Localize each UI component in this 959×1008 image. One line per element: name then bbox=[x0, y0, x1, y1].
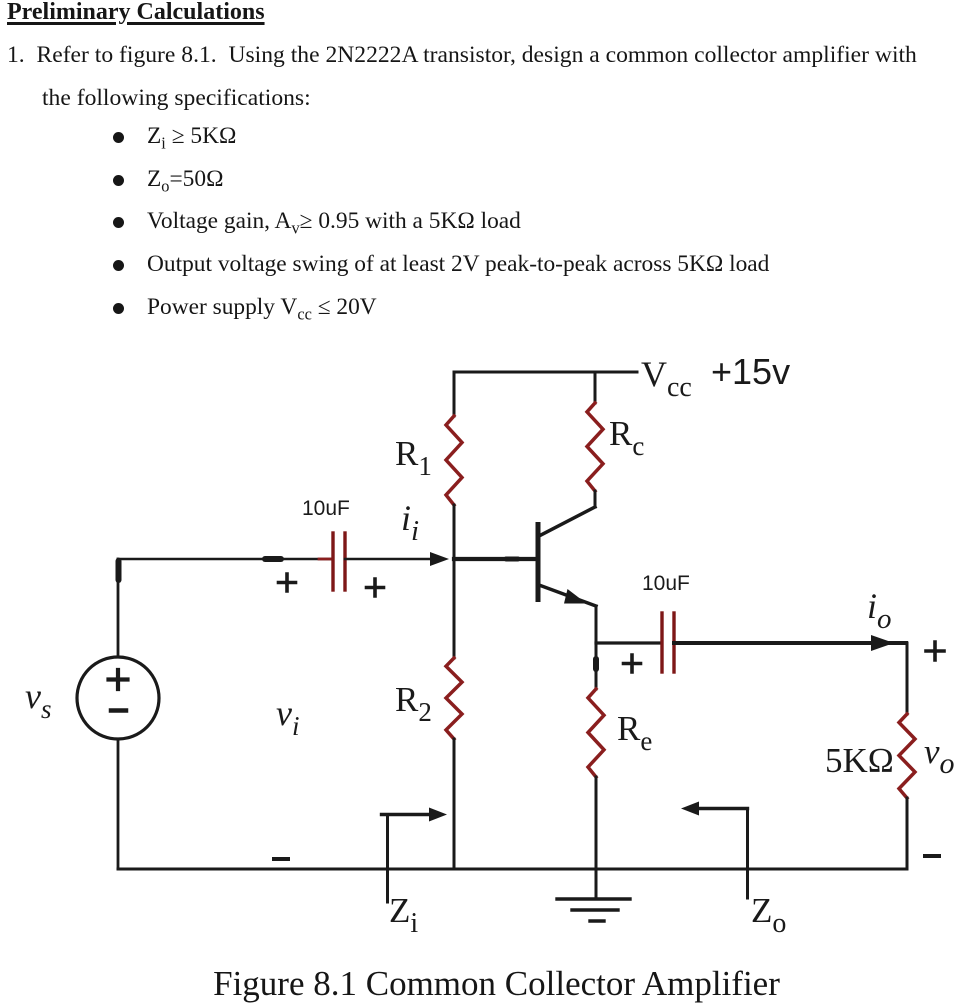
paragraph line 1 bbox=[7, 42, 917, 69]
resistor R2 bbox=[446, 658, 462, 739]
wire: Rc bottom to collector bend bbox=[594, 491, 597, 507]
arrowhead io bbox=[871, 635, 894, 651]
source vs circle bbox=[77, 657, 159, 739]
svg-text:Vcc: Vcc bbox=[641, 354, 692, 403]
capacitor C1 right plate bbox=[343, 533, 346, 590]
blob at input corner bbox=[116, 561, 122, 580]
transistor Q1 collector lead bbox=[539, 507, 595, 536]
wire: emitter vertical to output node bbox=[595, 606, 598, 643]
bullet 3: voltage gain bbox=[113, 217, 124, 228]
circuit schematic figure 8.1 bbox=[0, 340, 959, 1008]
svg-text:Rc: Rc bbox=[609, 414, 644, 461]
wire: R1 branch top bbox=[453, 372, 456, 416]
junction blob on emitter wire bbox=[593, 659, 599, 669]
wire: bottom ground rail bbox=[118, 868, 907, 871]
junction blob on input wire bbox=[265, 556, 281, 562]
resistor R1 bbox=[446, 416, 462, 505]
junction blob on base wire bbox=[506, 557, 518, 562]
wire: load bottom to rail bbox=[906, 798, 909, 869]
minus below vi bbox=[274, 857, 288, 861]
wire: left vertical source top bbox=[117, 559, 120, 657]
capacitor C2 left plate bbox=[660, 613, 663, 672]
svg-text:io: io bbox=[867, 586, 892, 635]
ground bar 1 bbox=[557, 897, 630, 900]
Zo arrowhead bbox=[681, 802, 699, 816]
wire: base node to R2 top bbox=[453, 559, 456, 658]
svg-text:Re: Re bbox=[617, 709, 652, 756]
arrowhead ii into base node bbox=[430, 552, 449, 566]
ground bar 2 bbox=[572, 908, 618, 911]
resistor Rc bbox=[587, 403, 603, 491]
capacitor C1 left plate bbox=[331, 533, 334, 590]
svg-text:vo: vo bbox=[924, 732, 955, 780]
Zo probe vertical bbox=[746, 809, 749, 899]
resistor Re bbox=[588, 689, 604, 777]
wire: input from source corner to capacitor C1 bbox=[118, 558, 332, 561]
minus at load bottom bbox=[925, 854, 939, 858]
paragraph line 2 bbox=[42, 85, 311, 112]
wire: top supply rail bbox=[455, 371, 637, 374]
capacitor C2 red lead stub bbox=[675, 642, 689, 645]
svg-text:Zi: Zi bbox=[389, 891, 418, 939]
ground bar 3 bbox=[590, 919, 604, 922]
wire: C2 to load corner bbox=[674, 641, 906, 645]
source vs minus sign bbox=[111, 708, 126, 713]
Zi probe horizontal bbox=[382, 813, 432, 816]
Zi probe vertical bbox=[386, 815, 389, 903]
Zo probe horizontal bbox=[699, 807, 748, 810]
wire: Re bottom to rail bbox=[595, 777, 598, 869]
transistor Q1 base bar bbox=[536, 525, 541, 600]
svg-text:5KΩ: 5KΩ bbox=[825, 741, 894, 780]
svg-text:10uF: 10uF bbox=[302, 497, 350, 520]
svg-text:Zo: Zo bbox=[751, 891, 786, 939]
wire: base node to transistor base bbox=[454, 557, 536, 561]
svg-text:ii: ii bbox=[401, 498, 419, 547]
wire: C1 to base node bbox=[345, 558, 433, 561]
figure caption bbox=[17, 964, 959, 1004]
wire: output node down to Re top bbox=[595, 643, 598, 689]
transistor Q1 emitter lead bbox=[539, 585, 596, 606]
wire: right vertical to load bbox=[906, 643, 909, 714]
transistor Q1 emitter arrowhead bbox=[564, 589, 587, 604]
capacitor C1 red lead stub bbox=[319, 558, 332, 561]
title: Preliminary Calculations bbox=[7, 0, 265, 26]
plus left of C1 bbox=[279, 574, 296, 591]
svg-text:10uF: 10uF bbox=[642, 572, 690, 595]
wire: R1 bottom to base node bbox=[453, 505, 456, 559]
wire: output node to capacitor C2 bbox=[596, 641, 661, 644]
wire: Rc branch stub bbox=[594, 372, 597, 403]
ground stub below rail bbox=[595, 869, 598, 899]
capacitor C2 right plate bbox=[672, 613, 675, 672]
plus at load top bbox=[926, 642, 944, 660]
plus right of C1 bbox=[367, 579, 384, 596]
bullet 2: Zo = 50 ohm bbox=[113, 175, 124, 186]
svg-text:vs: vs bbox=[25, 676, 52, 724]
svg-text:R2: R2 bbox=[395, 680, 432, 727]
source vs plus sign bbox=[109, 670, 128, 689]
bullet 5: power supply bbox=[113, 303, 124, 314]
resistor RL 5K bbox=[899, 714, 915, 798]
wire: R2 bottom to ground rail bbox=[453, 739, 456, 869]
svg-text:vi: vi bbox=[276, 693, 300, 741]
bullet 1: Zi >= 5K ohm bbox=[113, 132, 124, 143]
Zi arrowhead bbox=[429, 808, 447, 822]
svg-text:+15v: +15v bbox=[711, 351, 790, 392]
bullet 4: output swing bbox=[113, 260, 124, 271]
svg-text:R1: R1 bbox=[395, 434, 432, 481]
wire: left vertical source bottom bbox=[117, 739, 120, 869]
plus below C2 bbox=[624, 655, 641, 672]
